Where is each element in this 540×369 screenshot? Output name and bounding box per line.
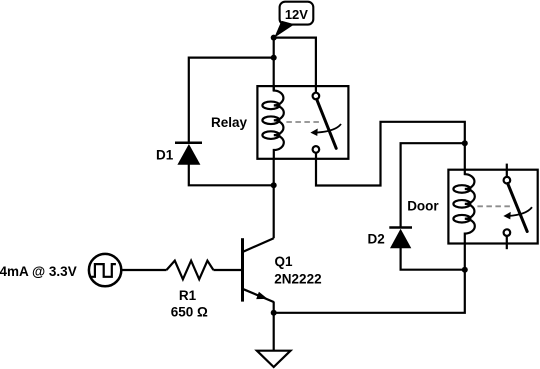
wire D2 anode to bottom junction — [401, 248, 465, 270]
wire emitter to ground — [273, 302, 275, 351]
svg-text:12V: 12V — [285, 7, 308, 22]
relay K2 Door — [448, 170, 537, 244]
wire door switch bottom stub — [506, 237, 508, 250]
power flag 12V — [274, 2, 313, 38]
resistor R1 — [167, 261, 214, 280]
svg-text:Relay: Relay — [211, 115, 248, 130]
svg-text:4mA @ 3.3V: 4mA @ 3.3V — [0, 264, 77, 279]
node A (12V junction) — [271, 35, 277, 41]
wire resistor to base — [213, 269, 241, 271]
wire door switch top stub — [506, 164, 508, 177]
svg-text:D1: D1 — [156, 147, 174, 162]
node F (door coil / D2 junction top) — [462, 140, 468, 146]
diode D2 — [389, 228, 412, 249]
svg-text:2N2222: 2N2222 — [274, 271, 321, 286]
node B (D1 branch junction) — [271, 55, 277, 61]
wire door coil top feed — [464, 143, 466, 170]
wire D2 branch top — [401, 143, 465, 227]
wire relay coil bottom to transistor collector — [273, 159, 275, 238]
wire 12V node to relay switch top — [274, 38, 316, 93]
transistor Q1 — [243, 238, 274, 302]
node G (door coil bottom junction) — [462, 267, 468, 273]
svg-text:R1: R1 — [179, 288, 197, 303]
svg-text:D2: D2 — [368, 231, 385, 246]
wire bottom rail emitter to door branch — [274, 270, 465, 313]
relay K1 — [257, 86, 348, 159]
wire relay switch bottom to door coil top — [316, 122, 465, 186]
wire 12V node down to coil branch — [273, 38, 275, 91]
node E (emitter junction) — [271, 310, 277, 316]
wire source to resistor — [121, 269, 166, 271]
source V1 pulse — [89, 254, 121, 286]
svg-text:650 Ω: 650 Ω — [171, 305, 208, 320]
wire branch node to diode D1 cathode — [189, 58, 274, 142]
diode D1 — [175, 143, 202, 165]
ground — [257, 351, 291, 367]
node C (D1/coil/collector junction) — [271, 182, 277, 188]
svg-text:Q1: Q1 — [275, 254, 294, 269]
svg-text:Door: Door — [407, 199, 439, 214]
wire door coil bottom — [464, 244, 466, 270]
wire D1 anode to collector rail — [189, 165, 274, 186]
